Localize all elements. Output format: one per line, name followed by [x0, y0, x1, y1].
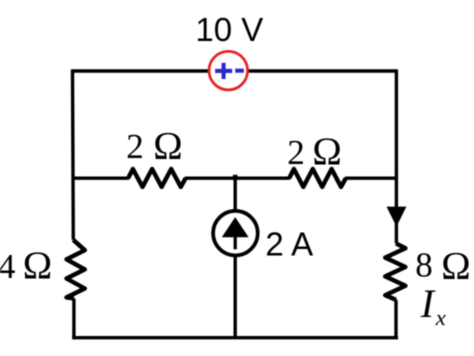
svg-text:Ω: Ω	[441, 244, 471, 288]
voltage source V1 minus sign	[235, 69, 244, 73]
svg-text:4: 4	[0, 247, 15, 286]
resistor 2ohm right zigzag	[289, 169, 346, 187]
wire middle horizontal right segment	[345, 176, 396, 179]
wire middle vertical	[233, 177, 236, 338]
svg-text:Ω: Ω	[312, 130, 342, 174]
wire bottom horizontal	[72, 336, 398, 339]
resistor 8ohm zigzag	[385, 243, 405, 299]
voltage source V1 plus sign	[215, 63, 232, 79]
wire right vertical top	[395, 69, 398, 243]
wire left vertical bottom	[72, 299, 75, 340]
wire middle horizontal center segment	[185, 176, 290, 179]
current source I1 arrow head	[222, 217, 249, 237]
wire left vertical top	[71, 69, 75, 239]
svg-text:Ω: Ω	[153, 124, 183, 168]
resistor 4ohm zigzag	[67, 240, 85, 299]
svg-text:10 V: 10 V	[195, 11, 263, 48]
junction node stub	[233, 175, 238, 180]
svg-text:2 A: 2 A	[265, 226, 313, 263]
svg-text:Ω: Ω	[22, 244, 52, 288]
wire middle horizontal left segment	[73, 176, 130, 179]
svg-text:I: I	[420, 281, 436, 326]
svg-text:2: 2	[126, 127, 144, 166]
wire top horizontal	[73, 69, 397, 72]
current direction arrow for Ix	[387, 207, 407, 227]
svg-text:2: 2	[287, 133, 305, 172]
resistor 2ohm left zigzag	[128, 169, 186, 187]
current source I1 arrow shaft	[234, 235, 237, 249]
wire right vertical bottom	[394, 300, 397, 340]
current source I1 circle	[213, 211, 258, 256]
svg-text:x: x	[435, 305, 446, 330]
svg-text:8: 8	[415, 246, 433, 285]
voltage source V1 circle	[209, 51, 248, 90]
